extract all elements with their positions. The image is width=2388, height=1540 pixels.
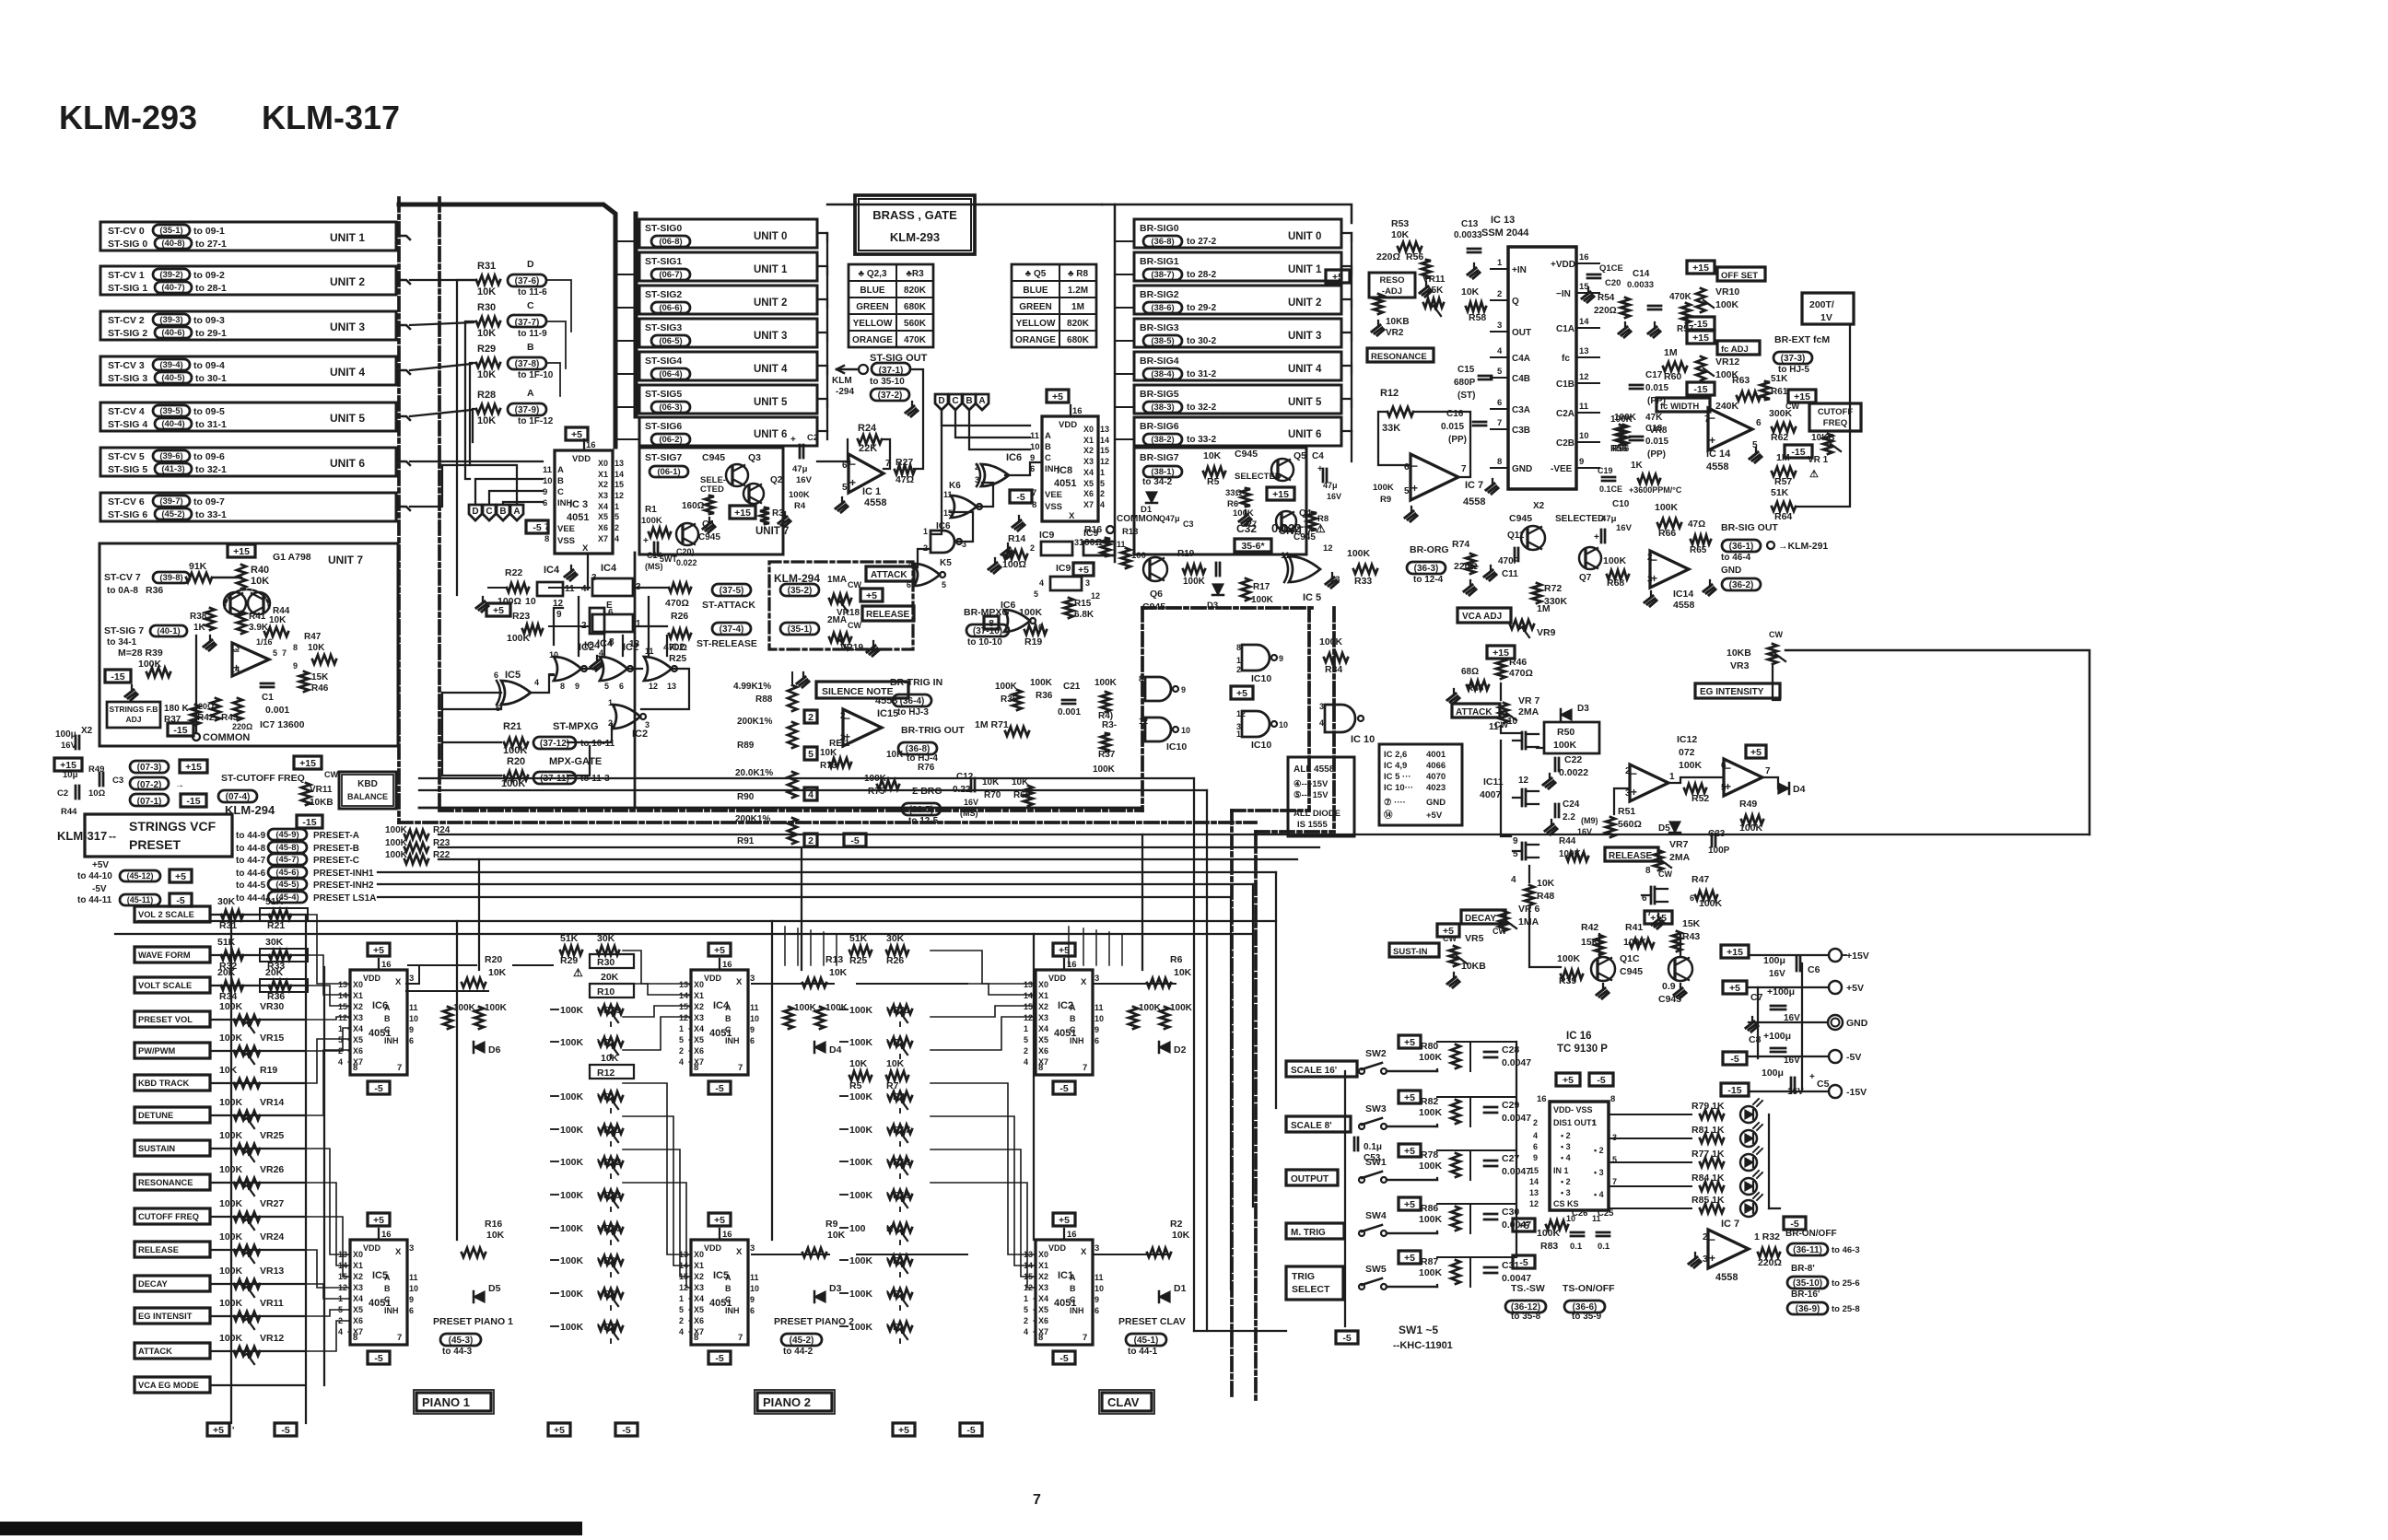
svg-text:C10: C10 [1612,499,1630,509]
resistor R52 [1684,784,1706,793]
svg-text:X6: X6 [598,523,608,532]
svg-text:to 31-1: to 31-1 [195,419,227,430]
svg-text:-5: -5 [966,1425,975,1436]
svg-text:VR21: VR21 [597,1125,621,1136]
label RELEASE [1605,847,1658,861]
svg-text:BLUE: BLUE [860,286,885,296]
signal box BR-SIG6 UNIT 6 [1134,417,1341,446]
power tag +5 [207,1423,229,1436]
svg-text:R19: R19 [1024,636,1042,647]
wire [210,1350,304,1352]
svg-text:VR20: VR20 [597,1223,621,1234]
wire IC16 outputs to LEDs [1609,1114,1691,1115]
power tag -15 [105,670,131,682]
svg-text:R46: R46 [311,683,329,694]
svg-text:10KB: 10KB [1386,317,1410,327]
svg-text:B: B [384,1284,391,1293]
capacitor C28 0.0047 [1484,1051,1497,1054]
svg-text:+5: +5 [1404,1146,1415,1157]
svg-text:PRESET PIANO 1: PRESET PIANO 1 [433,1316,513,1327]
power tag +5 [548,1423,570,1436]
wire IC6 outputs [406,990,488,992]
svg-text:C3: C3 [1183,519,1194,529]
svg-text:ST-SIG 3: ST-SIG 3 [108,373,147,384]
svg-text:R53: R53 [1391,218,1409,229]
svg-text:30K: 30K [597,933,615,944]
svg-text:BR-SIG5: BR-SIG5 [1140,389,1179,400]
svg-text:R52: R52 [1691,793,1709,804]
multiplexer IC5 4051 [368,1213,390,1226]
svg-text:9: 9 [556,610,562,620]
wire R31-R28 feeders [457,280,476,595]
svg-text:RESO: RESO [1380,275,1405,286]
control label RESONANCE [135,1174,210,1190]
svg-text:072: 072 [1679,747,1695,758]
svg-text:VR23: VR23 [597,1190,621,1201]
svg-text:UNIT 5: UNIT 5 [330,412,365,425]
svg-text:-5: -5 [1059,1353,1068,1364]
svg-text:12: 12 [1139,717,1148,726]
svg-text:R76: R76 [918,763,935,773]
svg-text:R77 1K: R77 1K [1691,1149,1725,1160]
power tag +15 [1721,945,1749,958]
wire vertical risers mid [784,927,786,965]
svg-text:R62: R62 [1771,432,1788,443]
diode D1 [1146,492,1157,503]
svg-text:SELECTED: SELECTED [1555,514,1604,524]
svg-text:-5V: -5V [92,884,107,894]
svg-text:to 25-8: to 25-8 [1832,1304,1860,1314]
board boundary dash lower vertical 2 [1254,832,1258,1400]
svg-text:R37: R37 [1098,750,1116,760]
svg-text:R2: R2 [1170,1219,1183,1230]
svg-text:C26: C26 [1572,1208,1587,1219]
svg-text:10K: 10K [251,576,269,587]
svg-text:12: 12 [338,1013,347,1022]
svg-text:D4: D4 [829,1044,842,1056]
wire gate mesh [531,674,554,693]
svg-text:4023: 4023 [1426,783,1446,793]
svg-text:4558: 4558 [1706,461,1728,472]
svg-text:11: 11 [750,1273,759,1282]
svg-text:C2: C2 [57,788,68,799]
svg-text:−: − [849,458,856,471]
svg-text:+5: +5 [493,605,504,616]
svg-text:R12: R12 [1380,388,1399,399]
svg-text:11: 11 [1094,1273,1104,1282]
power tag -15 [297,815,322,828]
label SUST-IN [1389,943,1439,957]
svg-text:RELEASE: RELEASE [138,1245,179,1254]
svg-text:100K: 100K [1603,555,1627,566]
svg-text:10K: 10K [477,415,496,426]
wire [840,1227,848,1229]
svg-text:X6: X6 [1083,489,1094,498]
svg-text:−: − [1631,767,1637,780]
svg-text:X2: X2 [81,726,93,736]
input box UNIT 6 [100,448,396,476]
svg-text:+5: +5 [1563,1075,1574,1086]
svg-text:5: 5 [604,682,609,691]
svg-text:Q1C: Q1C [1620,953,1640,964]
svg-text:X5: X5 [694,1305,704,1314]
diode D5 [474,1291,485,1302]
multiplexer IC8 4051 [1047,390,1069,402]
svg-text:11: 11 [943,490,953,499]
svg-text:♣R3: ♣R3 [906,269,924,279]
svg-text:R36: R36 [1036,691,1053,701]
svg-text:• 3: • 3 [1594,1168,1604,1177]
node B arrow tag [497,505,509,520]
svg-text:16V: 16V [796,475,813,485]
svg-text:0.001: 0.001 [265,705,289,716]
svg-text:8: 8 [1038,1333,1043,1343]
svg-text:IC 7: IC 7 [1465,480,1483,491]
svg-text:100K: 100K [1679,760,1703,771]
svg-text:11: 11 [409,1273,418,1282]
wire bus drop [1275,872,1277,1108]
wire [475,479,543,505]
svg-text:④--+15V: ④--+15V [1293,779,1329,789]
gate IC2 a [554,657,581,681]
svg-text:8: 8 [1139,674,1143,683]
svg-text:7: 7 [1497,418,1502,428]
svg-text:13: 13 [1100,425,1109,434]
gate K6 nor [951,496,977,518]
svg-text:COMMON: COMMON [203,732,250,743]
svg-text:+5: +5 [373,1215,384,1226]
transistor Q6 brorg [1143,557,1167,581]
wire led bus [1768,1114,1770,1208]
svg-text:6.8K: 6.8K [1074,610,1094,620]
svg-text:X0: X0 [1038,1250,1048,1259]
board boundary dash line horizontal [399,821,1256,824]
svg-text:CW: CW [1658,869,1672,879]
wire ST-ATTACK row [633,587,667,589]
svg-text:ST-SIG 7: ST-SIG 7 [104,625,144,636]
svg-text:100μ: 100μ [1762,1067,1784,1079]
svg-text:SW2: SW2 [1365,1048,1387,1059]
svg-text:100K: 100K [560,1322,584,1333]
wire [791,672,793,685]
svg-text:2MA: 2MA [1669,852,1691,863]
capacitor C31 0.0047 [1484,1266,1497,1269]
svg-text:14: 14 [1529,1177,1539,1186]
svg-text:+15: +15 [1727,947,1743,958]
svg-text:100K: 100K [1623,937,1647,948]
svg-text:ST-SIG 4: ST-SIG 4 [108,419,147,430]
svg-text:VR11: VR11 [310,785,333,795]
svg-text:+5: +5 [1404,1199,1415,1210]
svg-text:IC 5 ···: IC 5 ··· [1384,772,1411,782]
svg-text:VOLT SCALE: VOLT SCALE [138,981,192,990]
svg-text:100K: 100K [849,1157,873,1168]
wire [396,236,410,239]
resistor R23 100K [404,843,428,852]
svg-text:4: 4 [1024,1057,1028,1067]
svg-text:(06-5): (06-5) [659,336,682,346]
wire [396,416,410,420]
svg-text:R42: R42 [1581,922,1598,933]
svg-text:KLM-294: KLM-294 [774,572,820,585]
svg-text:0.015: 0.015 [1645,437,1668,447]
svg-text:3: 3 [840,733,846,743]
svg-text:OFF SET: OFF SET [1721,271,1758,281]
svg-text:5: 5 [1513,849,1518,859]
power tag -15 [168,723,193,736]
svg-text:X4: X4 [1038,1294,1048,1303]
wire long mid horizontals [419,777,1194,779]
svg-text:14: 14 [338,991,347,1000]
resistor R15 6.8K [1064,598,1073,618]
svg-text:10KB: 10KB [310,798,334,808]
svg-text:1MA: 1MA [827,575,847,585]
svg-text:(07-1): (07-1) [137,797,162,807]
svg-text:10K: 10K [1203,450,1222,461]
svg-text:C11: C11 [1502,569,1518,579]
svg-text:680K: 680K [904,302,927,312]
svg-text:Q47μ: Q47μ [1159,514,1180,523]
svg-text:VR 7: VR 7 [1518,695,1540,706]
svg-text:R60: R60 [1664,371,1681,382]
svg-text:PRESET-C: PRESET-C [313,856,359,866]
svg-text:X0: X0 [353,980,363,989]
svg-text:5: 5 [1024,1305,1028,1314]
svg-text:9: 9 [750,1025,755,1034]
gate K5 nor [914,564,940,586]
svg-text:C4A: C4A [1512,354,1530,364]
svg-text:15K: 15K [1426,286,1444,296]
board boundary dash jog horizontal 2 [1256,830,1334,834]
svg-text:6: 6 [1404,462,1410,472]
svg-text:3: 3 [1094,1243,1099,1254]
svg-text:R89: R89 [737,741,755,751]
svg-text:to 46-3: to 46-3 [1832,1245,1860,1255]
svg-text:BR-ORG: BR-ORG [1410,544,1449,555]
svg-text:(40-6): (40-6) [161,328,184,338]
svg-text:5: 5 [808,749,814,760]
svg-text:(45-5): (45-5) [275,880,298,890]
svg-text:+: + [849,476,856,489]
svg-text:X3: X3 [1083,457,1094,466]
svg-text:R3-: R3- [1102,720,1117,730]
svg-text:VCA ADJ: VCA ADJ [1462,612,1502,622]
svg-text:11: 11 [750,1003,759,1012]
wire [212,577,241,579]
svg-text:R14: R14 [1008,533,1025,544]
svg-text:OUTPUT: OUTPUT [1291,1174,1329,1184]
wire [210,954,304,956]
svg-text:9: 9 [543,487,547,497]
svg-text:IC2: IC2 [623,642,638,653]
capacitor C2 [75,786,77,799]
svg-text:R63: R63 [1732,375,1750,386]
svg-text:SUST-IN: SUST-IN [1393,947,1428,957]
svg-text:X1: X1 [694,991,704,1000]
node A arrow tag [976,394,989,410]
op-amp IC12 b [1724,759,1762,796]
svg-text:(ST): (ST) [1457,391,1475,401]
svg-text:CW: CW [848,621,861,630]
svg-text:6: 6 [750,1306,755,1315]
svg-text:-5: -5 [1342,1333,1351,1344]
svg-text:10: 10 [1094,1014,1104,1023]
svg-text:C14: C14 [1633,269,1650,279]
legend box ALL 4558 [1288,757,1354,836]
svg-text:X7: X7 [1083,500,1094,509]
svg-text:+15: +15 [1692,262,1709,274]
svg-text:X5: X5 [1038,1035,1048,1044]
svg-text:R86: R86 [1421,1203,1438,1214]
svg-text:EG INTENSIT: EG INTENSIT [138,1312,193,1321]
svg-text:1: 1 [1669,772,1675,782]
resistor R86 100K [1399,1197,1421,1210]
svg-text:+15: +15 [1692,332,1709,344]
diode D1 [1159,1291,1170,1302]
label RELEASE [862,606,914,621]
svg-text:Q2: Q2 [770,475,783,485]
svg-text:+5: +5 [1236,688,1247,699]
svg-text:BR-EXT fcM: BR-EXT fcM [1774,334,1830,345]
svg-text:(45-1): (45-1) [1134,1336,1159,1346]
wire [1341,332,1352,341]
multiplexer IC1 4051 [1053,1213,1075,1226]
svg-text:7: 7 [397,1063,402,1073]
svg-text:100K: 100K [849,1125,873,1136]
svg-text:GND: GND [1846,1018,1868,1029]
ground [570,566,572,570]
section banner PIANO 2 [757,1393,832,1411]
svg-text:R61: R61 [1771,387,1788,397]
svg-text:C15: C15 [1457,365,1475,375]
control label CUTOFF FREQ [135,1208,210,1224]
svg-text:10K: 10K [308,643,325,653]
wire power rail [1749,954,1829,956]
power tag +5 [1231,686,1253,699]
svg-text:8: 8 [544,534,549,544]
LED R84 [1740,1178,1757,1195]
svg-text:VOL 2 SCALE: VOL 2 SCALE [138,910,194,919]
svg-text:9: 9 [1579,457,1584,467]
svg-text:X0: X0 [353,1250,363,1259]
svg-text:(38-3): (38-3) [1151,402,1174,413]
svg-text:(36-9): (36-9) [1796,1304,1820,1314]
svg-text:16V: 16V [1577,827,1592,836]
svg-text:SCALE 8': SCALE 8' [1291,1121,1332,1131]
wire top bus right [1102,204,1352,223]
svg-text:6: 6 [1094,1306,1099,1315]
svg-text:R24: R24 [858,423,877,434]
svg-text:+5: +5 [571,429,582,440]
svg-text:ATTACK: ATTACK [871,570,907,580]
svg-text:100K: 100K [641,516,662,526]
svg-text:IC2: IC2 [1058,1000,1073,1011]
svg-text:(MS): (MS) [645,562,663,571]
svg-text:100K: 100K [1699,898,1723,909]
svg-text:1: 1 [1024,1294,1028,1303]
svg-text:1M: 1M [1537,603,1551,614]
svg-text:UNIT 7: UNIT 7 [328,554,363,566]
svg-text:11: 11 [1094,1003,1104,1012]
resistor R72 330K [1532,583,1541,603]
svg-text:6: 6 [750,1036,755,1045]
svg-text:5: 5 [842,483,848,493]
svg-text:B: B [499,507,506,517]
svg-text:⚠: ⚠ [1809,469,1819,480]
svg-text:to 1F-10: to 1F-10 [518,370,554,380]
svg-text:68Ω: 68Ω [1461,667,1479,677]
svg-text:(37-6): (37-6) [515,276,540,286]
svg-text:(37-5): (37-5) [720,586,744,596]
wire [817,431,827,439]
svg-text:13: 13 [667,682,676,691]
svg-text:100K: 100K [995,682,1018,692]
svg-text:(40-1): (40-1) [157,626,180,636]
svg-text:X3: X3 [694,1283,704,1292]
svg-text:4: 4 [615,534,619,543]
svg-text:WAVE FORM: WAVE FORM [138,951,191,960]
svg-text:R25: R25 [849,955,867,966]
svg-text:BR-SIG4: BR-SIG4 [1140,356,1179,367]
svg-text:14: 14 [679,991,688,1000]
svg-text:1: 1 [1592,1118,1597,1127]
wire [817,366,827,374]
op-amp IC14 4558 b [1650,551,1689,588]
svg-text:+5: +5 [1518,1220,1529,1231]
svg-text:9: 9 [1181,685,1186,694]
potentiometer VR2 10KB [1374,294,1383,314]
svg-text:VR24: VR24 [260,1231,284,1242]
svg-text:(07-3): (07-3) [137,763,162,773]
svg-text:to 44-11: to 44-11 [77,895,112,905]
svg-text:-15: -15 [173,725,187,736]
svg-text:6: 6 [1533,1142,1538,1151]
svg-text:IC2: IC2 [579,642,594,653]
svg-text:C24: C24 [1563,799,1580,810]
wire mesh piano2 feeders [623,951,689,984]
svg-text:12: 12 [615,491,624,500]
svg-text:4: 4 [1024,1327,1028,1336]
svg-text:C8: C8 [1749,1034,1762,1045]
svg-text:47μ: 47μ [792,464,808,474]
svg-text:560K: 560K [904,319,927,329]
svg-text:ALL DIODE: ALL DIODE [1293,809,1340,819]
label RESONANCE [1367,348,1434,362]
svg-text:13: 13 [1024,980,1033,989]
svg-text:100K: 100K [503,745,527,756]
svg-text:UNIT 0: UNIT 0 [1288,231,1321,242]
svg-text:MPX-GATE: MPX-GATE [549,756,602,767]
svg-text:X6: X6 [1038,1316,1048,1325]
svg-text:PIANO 1: PIANO 1 [422,1395,470,1409]
svg-text:KLM-317: KLM-317 [262,99,400,136]
power tag -15 [1687,382,1715,395]
wire [210,1384,304,1386]
svg-text:470K: 470K [904,335,927,345]
power tag +15 [1687,261,1715,274]
svg-text:VR8: VR8 [1649,426,1668,436]
svg-text:12: 12 [1091,591,1100,601]
svg-text:A: A [1045,431,1051,441]
svg-text:7: 7 [1765,766,1771,776]
svg-text:VDD: VDD [363,974,381,983]
gate IC2 d [613,705,640,729]
svg-text:IC6: IC6 [1006,452,1022,463]
svg-text:4558: 4558 [1673,600,1695,611]
svg-text:to 33-2: to 33-2 [1187,435,1217,445]
svg-text:BR-ON/OFF: BR-ON/OFF [1785,1229,1837,1239]
signal box BR-SIG2 UNIT 2 [1134,286,1341,314]
